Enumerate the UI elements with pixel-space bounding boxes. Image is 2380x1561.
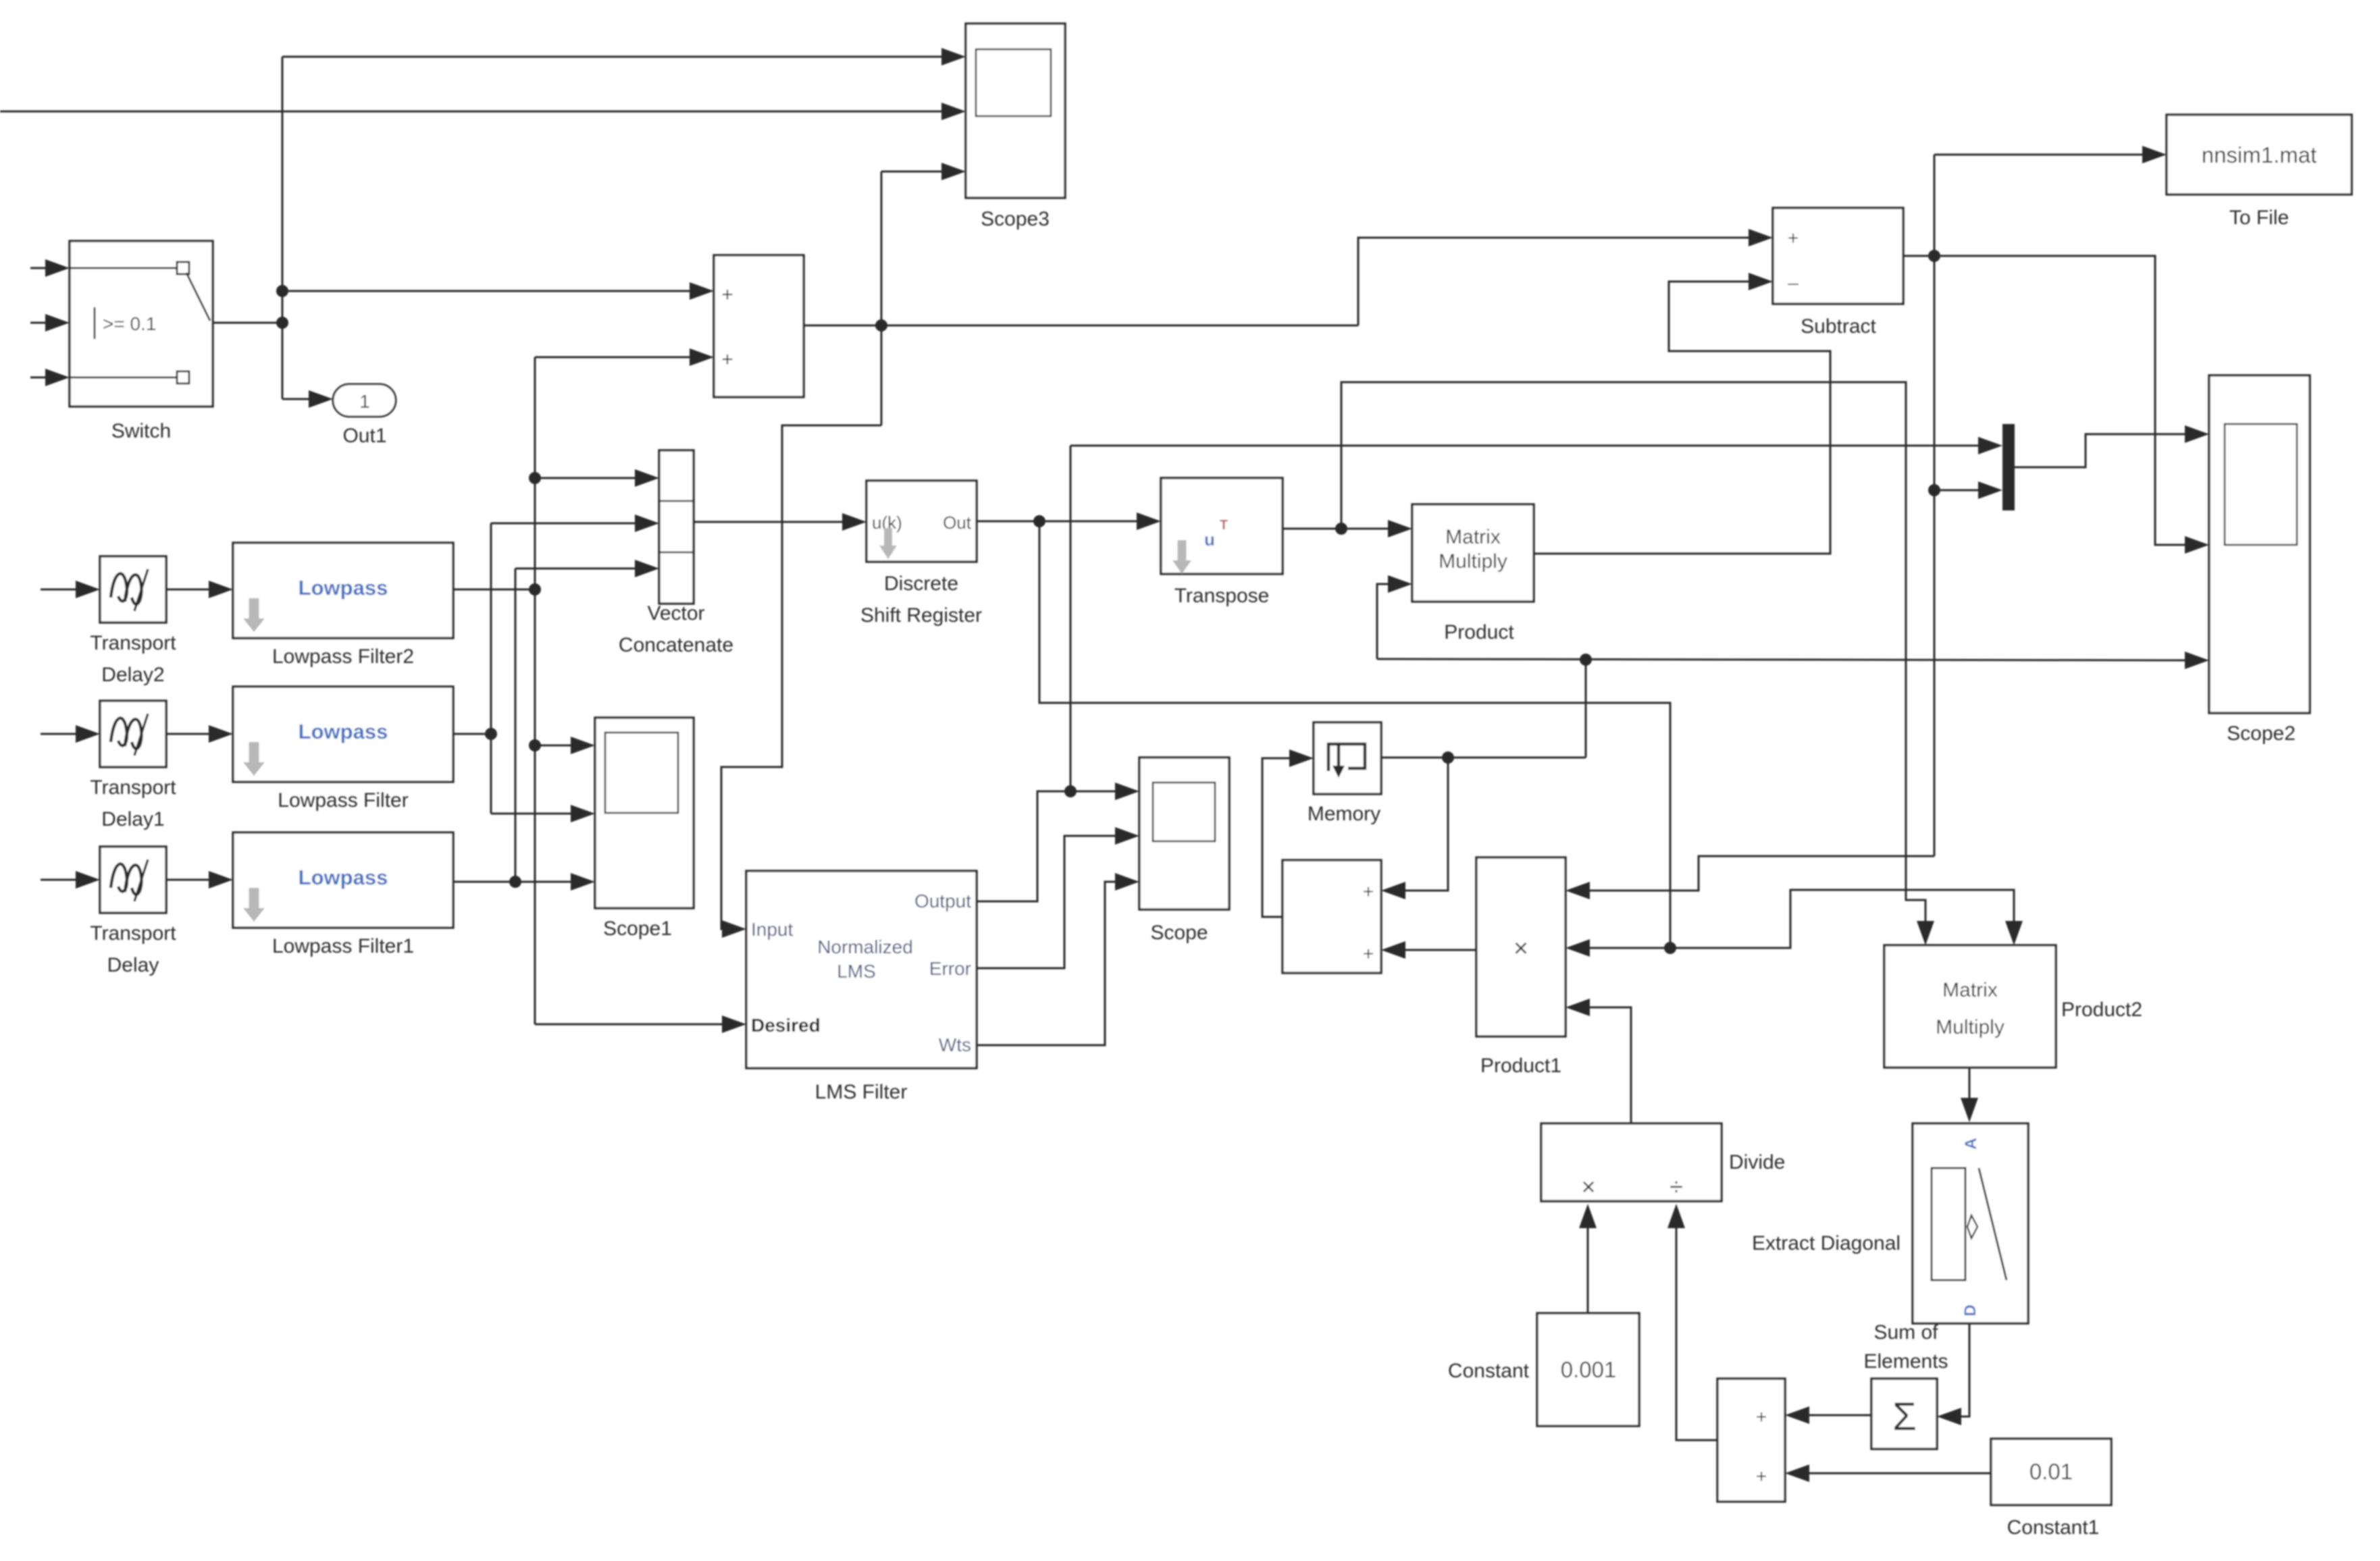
block Add1 (flipped sum) <box>1283 860 1381 973</box>
wire weights net down to Memory output line <box>1585 660 1587 758</box>
junction net F at Product1 input 2 line <box>1664 942 1676 954</box>
wire Transpose output to Product input 1 <box>1283 528 1391 530</box>
svg-text:Error: Error <box>929 958 971 979</box>
svg-text:–: – <box>1788 272 1799 293</box>
block Product1 (flipped) <box>1476 857 1566 1036</box>
block Discrete Shift Register <box>866 481 977 562</box>
junction Lowpass Filter2 output <box>529 583 541 596</box>
svg-text:+: + <box>1788 228 1799 248</box>
svg-text:+: + <box>721 284 733 306</box>
block Mux <box>2002 424 2015 510</box>
block Vector Concatenate <box>659 450 694 604</box>
svg-text:Product2: Product2 <box>2061 999 2142 1021</box>
block Sum of Elements <box>1871 1379 1937 1449</box>
wire Memory output <box>1381 757 1586 759</box>
svg-text:Sum of: Sum of <box>1873 1321 1938 1344</box>
junction Lowpass Filter1 output <box>509 876 521 888</box>
wire Extract Diagonal output to Sum of Elements <box>1958 1323 1969 1417</box>
wire input stub Transport Delay <box>41 879 79 881</box>
svg-text:LMS: LMS <box>837 961 876 982</box>
wire Product2 output to Extract Diagonal <box>1969 1067 1971 1101</box>
svg-text:Matrix: Matrix <box>1445 526 1501 548</box>
wire net E vertical x=1305 <box>881 171 883 425</box>
junction weights net <box>1580 654 1592 666</box>
junction Add output <box>875 319 887 332</box>
wire net B to Add input 2 <box>535 356 693 359</box>
wire net B vertical x=792 <box>534 357 536 1024</box>
svg-text:T: T <box>1220 518 1228 533</box>
wire net F to Product1 input 2 <box>1586 947 1670 949</box>
svg-text:Extract Diagonal: Extract Diagonal <box>1752 1232 1900 1254</box>
wire Product1 output to Add1 input 2 <box>1402 949 1476 951</box>
wire Switch output to junction <box>213 322 282 324</box>
wire input stub Transport Delay2 <box>41 589 79 591</box>
junction Transpose output <box>1335 523 1347 535</box>
wire to Out1 <box>282 398 312 400</box>
wire input stub Switch input 1 <box>30 267 49 269</box>
junction net A to Add input 1 branch <box>276 285 288 297</box>
junction Subtract output <box>1928 250 1940 262</box>
svg-text:Out: Out <box>943 512 972 533</box>
svg-text:Lowpass Filter: Lowpass Filter <box>278 789 408 812</box>
wire Transport Delay1 output <box>166 733 212 735</box>
svg-text:1: 1 <box>359 391 370 412</box>
junction net A at switch output <box>276 317 288 329</box>
wire Sum of Elements output to Add2 input 1 <box>1806 1414 1871 1417</box>
svg-text:Delay1: Delay1 <box>101 808 164 830</box>
block Lowpass Filter1 <box>233 832 453 928</box>
wire Lowpass Filter output <box>453 733 491 735</box>
block Transport Delay1 <box>100 701 166 767</box>
svg-text:0.01: 0.01 <box>2029 1459 2073 1484</box>
svg-text:Out1: Out1 <box>342 425 386 447</box>
block Subtract <box>1773 208 1903 304</box>
wire Transport Delay2 output <box>166 589 212 591</box>
wire net E to Scope3 input 3 <box>881 171 946 173</box>
svg-text:Transport: Transport <box>90 922 176 945</box>
wire Add output to Subtract plus input <box>1358 238 1752 325</box>
block LMS Filter <box>746 871 977 1068</box>
svg-text:Scope1: Scope1 <box>603 918 672 940</box>
wire net F DSR to Product1 input 2 run <box>1039 521 1670 948</box>
block Memory <box>1314 722 1381 794</box>
svg-text:Multiply: Multiply <box>1936 1016 2004 1038</box>
junction net B to Scope1 input 1 <box>529 739 541 751</box>
svg-text:nnsim1.mat: nnsim1.mat <box>2202 142 2317 167</box>
svg-text:>= 0.1: >= 0.1 <box>103 313 156 334</box>
wire LMS Output to Scope input 1 <box>977 791 1118 901</box>
svg-text:Lowpass: Lowpass <box>299 576 388 600</box>
block Add2 (flipped sum) <box>1717 1379 1785 1502</box>
svg-text:Σ: Σ <box>1892 1395 1917 1439</box>
block Lowpass Filter (middle) <box>233 687 453 782</box>
svg-text:Constant: Constant <box>1448 1360 1530 1382</box>
wire net A vertical x=418 <box>282 57 284 399</box>
svg-text:0.001: 0.001 <box>1561 1357 1617 1382</box>
svg-text:Transport: Transport <box>90 776 176 799</box>
wire Product output to Subtract minus input <box>1534 282 1830 554</box>
wire Transport Delay output <box>166 879 212 881</box>
wire to Add input 1 <box>282 290 693 292</box>
svg-text:Input: Input <box>751 919 793 940</box>
block Constant <box>1537 1313 1639 1426</box>
svg-text:Transport: Transport <box>90 632 176 654</box>
port Out1 <box>333 384 396 417</box>
block Switch <box>70 241 213 406</box>
svg-text:Subtract: Subtract <box>1801 315 1876 338</box>
svg-text:Scope2: Scope2 <box>2227 722 2296 745</box>
svg-text:+: + <box>1756 1466 1767 1487</box>
svg-text:Shift Register: Shift Register <box>860 604 982 627</box>
wire net C vertical x=727 <box>490 523 492 814</box>
svg-text:+: + <box>1363 943 1374 964</box>
svg-text:Lowpass Filter2: Lowpass Filter2 <box>272 645 414 668</box>
junction Lowpass Filter output <box>485 728 497 740</box>
wire Lowpass Filter2 output <box>453 589 535 591</box>
svg-text:+: + <box>1756 1406 1767 1427</box>
svg-text:Scope3: Scope3 <box>981 208 1050 230</box>
wire input stub Switch input 3 <box>30 377 49 379</box>
svg-text:Delay: Delay <box>107 954 159 976</box>
wire Mux output to Scope2 input 1 <box>2015 434 2188 467</box>
svg-text:To File: To File <box>2229 207 2289 229</box>
wire net E to LMS Input <box>721 425 881 929</box>
block Scope2 <box>2209 375 2310 713</box>
svg-text:Lowpass: Lowpass <box>299 866 388 889</box>
svg-text:Product1: Product1 <box>1480 1055 1561 1077</box>
wire LMS Wts to Scope input 3 <box>977 882 1118 1045</box>
svg-text:×: × <box>1514 934 1528 963</box>
wire Memory output to Add1 input 1 <box>1402 758 1448 891</box>
svg-text:Discrete: Discrete <box>884 573 958 595</box>
wire net C to Vector Concatenate input 2 <box>491 523 638 525</box>
svg-text:Multiply: Multiply <box>1439 550 1507 573</box>
svg-text:D: D <box>1961 1304 1980 1316</box>
wire Subtract output <box>1903 256 2188 545</box>
wire weights net to Product input 2 <box>1377 584 1391 659</box>
junction Memory output to Add1 feedback <box>1442 751 1454 764</box>
block Scope <box>1139 758 1229 909</box>
block To File <box>2167 115 2352 194</box>
wire LMS Output net to Mux input 1 <box>1070 445 1982 447</box>
junction LMS Output net at Scope input 1 <box>1064 785 1077 797</box>
wire to Scope3 input 2 <box>0 111 946 113</box>
wire weights net horizontal to Scope2 input 3 <box>1377 659 2188 660</box>
block Product2 <box>1884 945 2056 1067</box>
svg-text:÷: ÷ <box>1670 1173 1683 1200</box>
wire to Vector Concatenate input 1 <box>535 477 638 479</box>
block Transpose <box>1161 478 1283 574</box>
wire Lowpass Filter1 output to Scope1 input 3 <box>453 881 574 883</box>
wire input stub Switch input 2 <box>30 322 49 324</box>
block Transport Delay2 <box>100 556 166 623</box>
wire Discrete Shift Register output to Transpose <box>977 521 1140 523</box>
block Add <box>714 255 804 397</box>
wire net D vertical x=763 <box>515 568 517 882</box>
wire Subtract net to Mux input 2 <box>1934 490 1982 492</box>
svg-text:Delay2: Delay2 <box>101 664 164 686</box>
junction Discrete Shift Register output <box>1033 515 1045 527</box>
wire to Scope3 input 1 <box>282 56 946 58</box>
wire Vector Concatenate output to Discrete Shift Register <box>694 521 846 523</box>
svg-text:Lowpass: Lowpass <box>299 720 388 743</box>
svg-text:Memory: Memory <box>1308 803 1380 825</box>
svg-text:Desired: Desired <box>751 1015 821 1036</box>
svg-text:Wts: Wts <box>939 1034 971 1055</box>
svg-text:Scope: Scope <box>1150 922 1208 944</box>
wire Subtract net to Product1 input 1 <box>1586 856 1934 891</box>
block Constant1 <box>1991 1439 2111 1505</box>
wire Add1 output to Memory input <box>1262 758 1293 917</box>
svg-text:A: A <box>1962 1138 1980 1149</box>
wire Constant to Divide times input <box>1587 1224 1589 1313</box>
wire Constant1 output to Add2 input 2 <box>1806 1473 1991 1475</box>
junction net B to Vector Concatenate input 1 <box>529 472 541 484</box>
junction Subtract net to Mux input 2 <box>1928 484 1940 496</box>
wire Subtract net to To File <box>1934 154 2146 156</box>
svg-text:×: × <box>1581 1173 1595 1200</box>
block Divide (flipped vertical) <box>1541 1123 1722 1201</box>
block Transport Delay <box>100 847 166 913</box>
svg-text:+: + <box>721 348 733 371</box>
wire to Scope1 input 1 <box>535 745 574 747</box>
wire Add output <box>804 325 1358 327</box>
svg-text:Output: Output <box>914 891 971 911</box>
block Scope3 <box>966 24 1065 198</box>
svg-text:Product: Product <box>1444 621 1514 643</box>
block Extract Diagonal <box>1913 1123 2028 1323</box>
block Lowpass Filter2 <box>233 543 453 638</box>
svg-text:Divide: Divide <box>1729 1151 1785 1173</box>
block Scope1 <box>595 718 694 908</box>
svg-text:Constant1: Constant1 <box>2007 1516 2100 1539</box>
wire net D to Vector Concatenate input 3 <box>515 568 638 570</box>
svg-text:u: u <box>1204 529 1215 550</box>
wire Transpose output to Product2 input 1 <box>1341 382 1925 923</box>
svg-text:Matrix: Matrix <box>1942 979 1998 1001</box>
wire LMS Error to Scope input 2 <box>977 836 1118 968</box>
wire net B to LMS Desired input <box>535 1024 725 1026</box>
wire input stub Transport Delay1 <box>41 733 79 735</box>
svg-text:Elements: Elements <box>1863 1350 1948 1373</box>
wire Divide output to Product1 input 3 <box>1586 1007 1631 1123</box>
svg-text:Vector: Vector <box>647 602 704 625</box>
wire LMS Output net vertical x=1585 <box>1070 446 1072 791</box>
wire Add2 output to Divide divide input <box>1676 1224 1717 1440</box>
svg-text:Concatenate: Concatenate <box>619 634 733 656</box>
svg-text:Switch: Switch <box>111 420 171 442</box>
svg-text:+: + <box>1363 881 1374 902</box>
wire net C to Scope1 input 2 <box>491 813 574 815</box>
block Product <box>1412 504 1534 602</box>
wire Subtract net vertical x=2864 <box>1934 155 1936 856</box>
wire net F zigzag to Product2 input 2 <box>1670 890 2014 948</box>
svg-text:Normalized: Normalized <box>817 936 913 957</box>
svg-text:Transpose: Transpose <box>1174 585 1270 607</box>
svg-text:LMS Filter: LMS Filter <box>815 1081 908 1103</box>
svg-text:Lowpass Filter1: Lowpass Filter1 <box>272 935 414 957</box>
